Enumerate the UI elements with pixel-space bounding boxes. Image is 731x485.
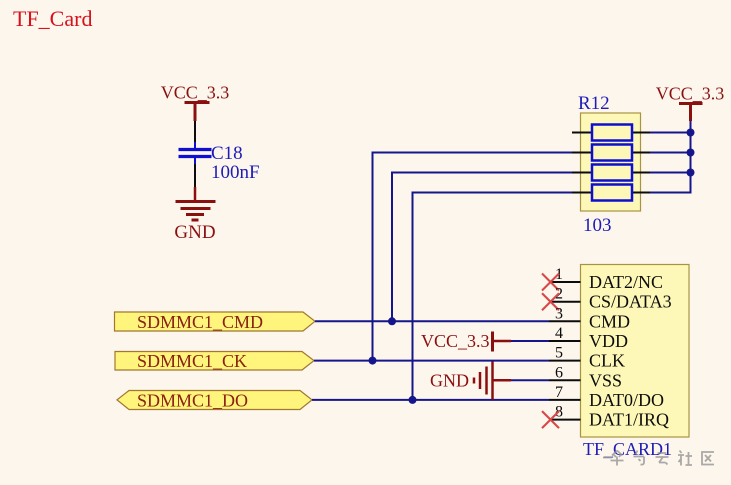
svg-text:VCC_3.3: VCC_3.3 xyxy=(421,331,490,351)
junction on bus at R12-C xyxy=(687,169,695,177)
svg-text:103: 103 xyxy=(583,215,612,236)
svg-text:CMD: CMD xyxy=(589,311,630,331)
wire VCC to pin 4 xyxy=(511,340,549,342)
svg-text:DAT2/NC: DAT2/NC xyxy=(589,272,663,292)
svg-text:CLK: CLK xyxy=(589,351,625,371)
port SDMMC1_CMD xyxy=(115,312,316,332)
junction CMD net xyxy=(388,317,396,325)
IC TF_CARD1 body xyxy=(581,265,690,438)
wire VCC bus vertical (right of R12) xyxy=(650,121,691,193)
wire R12-D left to DO net xyxy=(413,193,573,400)
wire DO port to pin 7 xyxy=(312,399,549,401)
wire R12-C left to CMD net xyxy=(392,173,572,322)
resistor network R12 body xyxy=(581,113,641,211)
resistor R12-B xyxy=(572,145,650,161)
ground GND (at pin 6 VSS) xyxy=(474,362,511,400)
pin 1 DAT2/NC xyxy=(549,266,663,292)
watermark char yun xyxy=(656,453,669,465)
no-connect X pin 1 xyxy=(542,274,559,291)
power VCC_3.3 (at pin 4 VDD) xyxy=(493,332,512,352)
svg-text:R12: R12 xyxy=(578,93,610,114)
wire R12-B right to bus xyxy=(650,152,691,154)
no-connect X pin 8 xyxy=(542,411,559,428)
junction DO net xyxy=(409,396,417,404)
capacitor C18 xyxy=(179,142,212,164)
svg-text:3: 3 xyxy=(555,305,563,322)
wire R12-A right to bus xyxy=(650,132,691,134)
wire GND to pin 6 xyxy=(511,379,549,381)
wire CK port to pin 5 xyxy=(314,360,549,362)
resistor R12-C xyxy=(572,165,650,181)
svg-text:SDMMC1_DO: SDMMC1_DO xyxy=(137,390,248,410)
watermark char qu xyxy=(702,452,714,465)
svg-text:SDMMC1_CMD: SDMMC1_CMD xyxy=(137,312,263,332)
wire R12-C right to bus xyxy=(650,172,691,174)
svg-text:TF_Card: TF_Card xyxy=(13,6,92,31)
junction CK net xyxy=(369,357,377,365)
svg-text:VDD: VDD xyxy=(589,331,628,351)
wire R12-B left to CK net xyxy=(373,153,573,361)
pin 6 VSS xyxy=(549,364,622,390)
watermark char hua xyxy=(611,451,624,466)
svg-text:VCC_3.3: VCC_3.3 xyxy=(161,83,230,103)
svg-text:CS/DATA3: CS/DATA3 xyxy=(589,292,672,312)
svg-text:4: 4 xyxy=(555,325,563,342)
power VCC_3.3 (top right) xyxy=(679,104,703,122)
resistor R12-A xyxy=(572,125,650,141)
watermark dash xyxy=(603,457,612,459)
pin 5 CLK xyxy=(549,345,625,371)
svg-text:100nF: 100nF xyxy=(211,162,260,183)
svg-text:TF_CARD1: TF_CARD1 xyxy=(583,439,672,459)
pin 2 CS/DATA3 xyxy=(549,286,672,312)
watermark char she xyxy=(678,451,692,466)
svg-text:DAT0/DO: DAT0/DO xyxy=(589,390,664,410)
pin 7 DAT0/DO xyxy=(549,384,664,410)
svg-text:C18: C18 xyxy=(211,143,243,164)
svg-text:VSS: VSS xyxy=(589,370,622,390)
svg-text:DAT1/IRQ: DAT1/IRQ xyxy=(589,410,669,430)
resistor R12-D xyxy=(572,185,650,201)
power VCC_3.3 (left, above C18) xyxy=(185,103,210,122)
port SDMMC1_DO xyxy=(117,390,312,410)
no-connect X pin 2 xyxy=(542,293,559,310)
svg-text:GND: GND xyxy=(430,371,469,391)
svg-text:GND: GND xyxy=(174,222,215,243)
svg-text:5: 5 xyxy=(555,345,563,362)
wire VCC to C18 xyxy=(194,121,196,142)
svg-text:VCC_3.3: VCC_3.3 xyxy=(656,84,725,104)
svg-text:7: 7 xyxy=(555,384,563,401)
junction on bus at R12-A xyxy=(687,129,695,137)
svg-text:SDMMC1_CK: SDMMC1_CK xyxy=(137,351,247,371)
svg-text:6: 6 xyxy=(555,364,563,381)
wire C18 to GND xyxy=(194,164,196,187)
pin 3 CMD xyxy=(549,305,630,331)
junction on bus at R12-B xyxy=(687,149,695,157)
port SDMMC1_CK xyxy=(115,351,314,371)
pin 8 DAT1/IRQ xyxy=(549,404,669,430)
pin 4 VDD xyxy=(549,325,628,351)
watermark char wei xyxy=(634,451,645,465)
wire CMD port to pin 3 xyxy=(315,320,549,322)
ground GND (left, below C18) xyxy=(176,187,216,220)
